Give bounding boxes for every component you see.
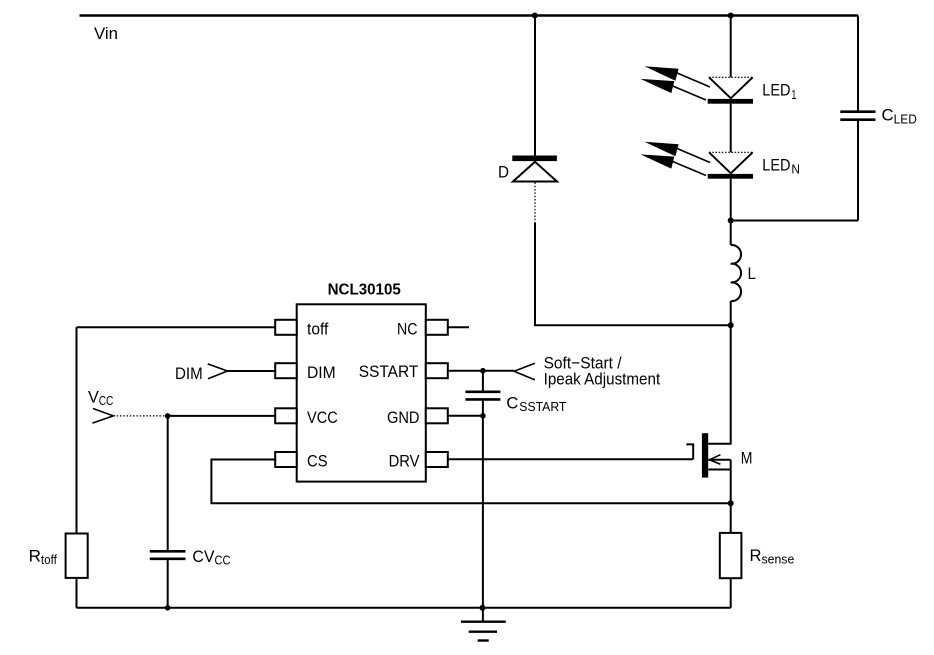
wire VCC junction to pin bbox=[168, 415, 276, 417]
wire Vin top rail bbox=[80, 14, 859, 16]
pin DIM rect bbox=[275, 363, 297, 378]
svg-text:NC: NC bbox=[397, 320, 418, 339]
svg-text:LED: LED bbox=[894, 111, 917, 126]
wire D branch vertical lower bbox=[535, 223, 731, 326]
wire junction to inductor bbox=[730, 221, 732, 246]
ground bbox=[461, 622, 506, 641]
wire junction to CLED bottom bbox=[731, 220, 858, 222]
LED D1 light arrow lower bbox=[640, 79, 706, 100]
wire D anode dotted segment bbox=[534, 183, 536, 223]
svg-text:toff: toff bbox=[307, 320, 329, 339]
node inductor/drain junction bbox=[728, 322, 734, 328]
LED DN light arrow lower bbox=[640, 154, 706, 175]
svg-text:LED: LED bbox=[762, 155, 790, 174]
node VCC input arrow bbox=[92, 409, 113, 424]
pin toff rect bbox=[275, 320, 297, 335]
node junction top-right (LED branch) bbox=[728, 13, 734, 19]
transistor M source arrow line bbox=[708, 455, 731, 465]
node DIM input arrow bbox=[208, 364, 228, 379]
svg-text:R: R bbox=[29, 546, 41, 565]
wire NC stub bbox=[448, 326, 469, 328]
pin GND rect bbox=[426, 408, 448, 423]
wire SSTART to arrow bbox=[448, 370, 514, 372]
pin SSTART rect bbox=[426, 363, 448, 378]
svg-text:1: 1 bbox=[791, 87, 796, 102]
wire left rail vertical bbox=[76, 327, 78, 533]
pin DRV rect bbox=[426, 452, 448, 467]
capacitor CLED bbox=[840, 16, 875, 221]
wire DRV to gate bbox=[448, 458, 693, 460]
node junction top-left (D branch) bbox=[532, 13, 538, 19]
svg-text:DRV: DRV bbox=[389, 452, 420, 471]
svg-text:CC: CC bbox=[215, 552, 231, 567]
node bottom junction ground bbox=[480, 605, 486, 611]
wire Rtoff to bottom rail bbox=[76, 578, 78, 608]
transistor M channel bar bbox=[702, 433, 708, 477]
wire Rsense to bottom rail bbox=[730, 578, 732, 608]
wire LED branch vertical upper bbox=[730, 16, 732, 78]
node LED/CLED junction bbox=[728, 218, 734, 224]
svg-text:C: C bbox=[882, 106, 894, 125]
node Soft-Start input arrow bbox=[514, 363, 535, 380]
svg-text:toff: toff bbox=[41, 552, 57, 567]
LED D1 light arrow upper bbox=[645, 66, 711, 87]
node SSTART junction bbox=[480, 368, 486, 374]
svg-text:CC: CC bbox=[99, 393, 114, 408]
svg-text:M: M bbox=[741, 449, 753, 468]
svg-text:L: L bbox=[748, 264, 757, 283]
svg-text:N: N bbox=[791, 162, 800, 177]
wire D branch vertical upper bbox=[534, 16, 536, 157]
svg-text:Ipeak Adjustment: Ipeak Adjustment bbox=[544, 370, 661, 389]
svg-text:CS: CS bbox=[307, 452, 328, 471]
svg-text:Vin: Vin bbox=[94, 24, 118, 43]
svg-text:C: C bbox=[506, 393, 518, 412]
wire LEDN to node bbox=[730, 179, 732, 222]
resistor Rsense bbox=[720, 533, 742, 578]
resistor Rtoff bbox=[66, 534, 88, 578]
wire inductor to node bbox=[730, 301, 732, 325]
svg-text:sense: sense bbox=[762, 552, 795, 567]
svg-text:VCC: VCC bbox=[307, 408, 338, 427]
node source junction bbox=[728, 500, 734, 506]
pin VCC rect bbox=[275, 408, 297, 423]
transistor M gate lead bbox=[686, 444, 693, 459]
svg-text:R: R bbox=[750, 546, 762, 565]
svg-text:GND: GND bbox=[387, 408, 420, 427]
LED DN light arrow upper bbox=[645, 142, 711, 163]
wire bottom rail bbox=[77, 607, 731, 609]
wire between LED1 and LEDN bbox=[730, 104, 732, 153]
wire source vertical bbox=[730, 460, 732, 503]
wire GND pin to junction bbox=[448, 415, 483, 417]
wire drain vertical bbox=[708, 325, 731, 444]
node GND junction bbox=[480, 413, 486, 419]
diode D triangle bbox=[513, 162, 557, 182]
svg-text:NCL30105: NCL30105 bbox=[328, 281, 402, 298]
svg-text:SSTART: SSTART bbox=[519, 399, 566, 414]
transistor M body line bbox=[708, 469, 731, 471]
svg-text:SSTART: SSTART bbox=[359, 362, 419, 381]
LED DN symbol bbox=[708, 152, 753, 178]
wire junction to Rsense bbox=[730, 503, 732, 533]
svg-text:LED: LED bbox=[762, 81, 790, 100]
svg-text:DIM: DIM bbox=[175, 364, 203, 383]
svg-text:CV: CV bbox=[192, 547, 215, 566]
op-amp U1 NCL30105 box bbox=[297, 304, 426, 481]
wire CS loop bbox=[211, 460, 730, 504]
wire DIM arrow to pin bbox=[228, 370, 276, 372]
pin CS rect bbox=[275, 452, 297, 467]
wire VCC dotted segment bbox=[113, 415, 167, 417]
node VCC junction bbox=[165, 413, 171, 419]
node bottom junction CVCC bbox=[165, 605, 171, 611]
inductor L bbox=[731, 245, 741, 301]
svg-text:DIM: DIM bbox=[307, 363, 336, 382]
wire GND vertical to ground bbox=[482, 416, 484, 622]
wire toff to left rail bbox=[77, 326, 276, 328]
pin NC rect bbox=[426, 320, 448, 335]
capacitor CSSTART bbox=[465, 371, 500, 416]
svg-text:D: D bbox=[498, 163, 509, 182]
capacitor CVCC bbox=[150, 416, 186, 608]
diode D cathode bar bbox=[512, 156, 557, 162]
LED D1 symbol bbox=[708, 77, 753, 103]
